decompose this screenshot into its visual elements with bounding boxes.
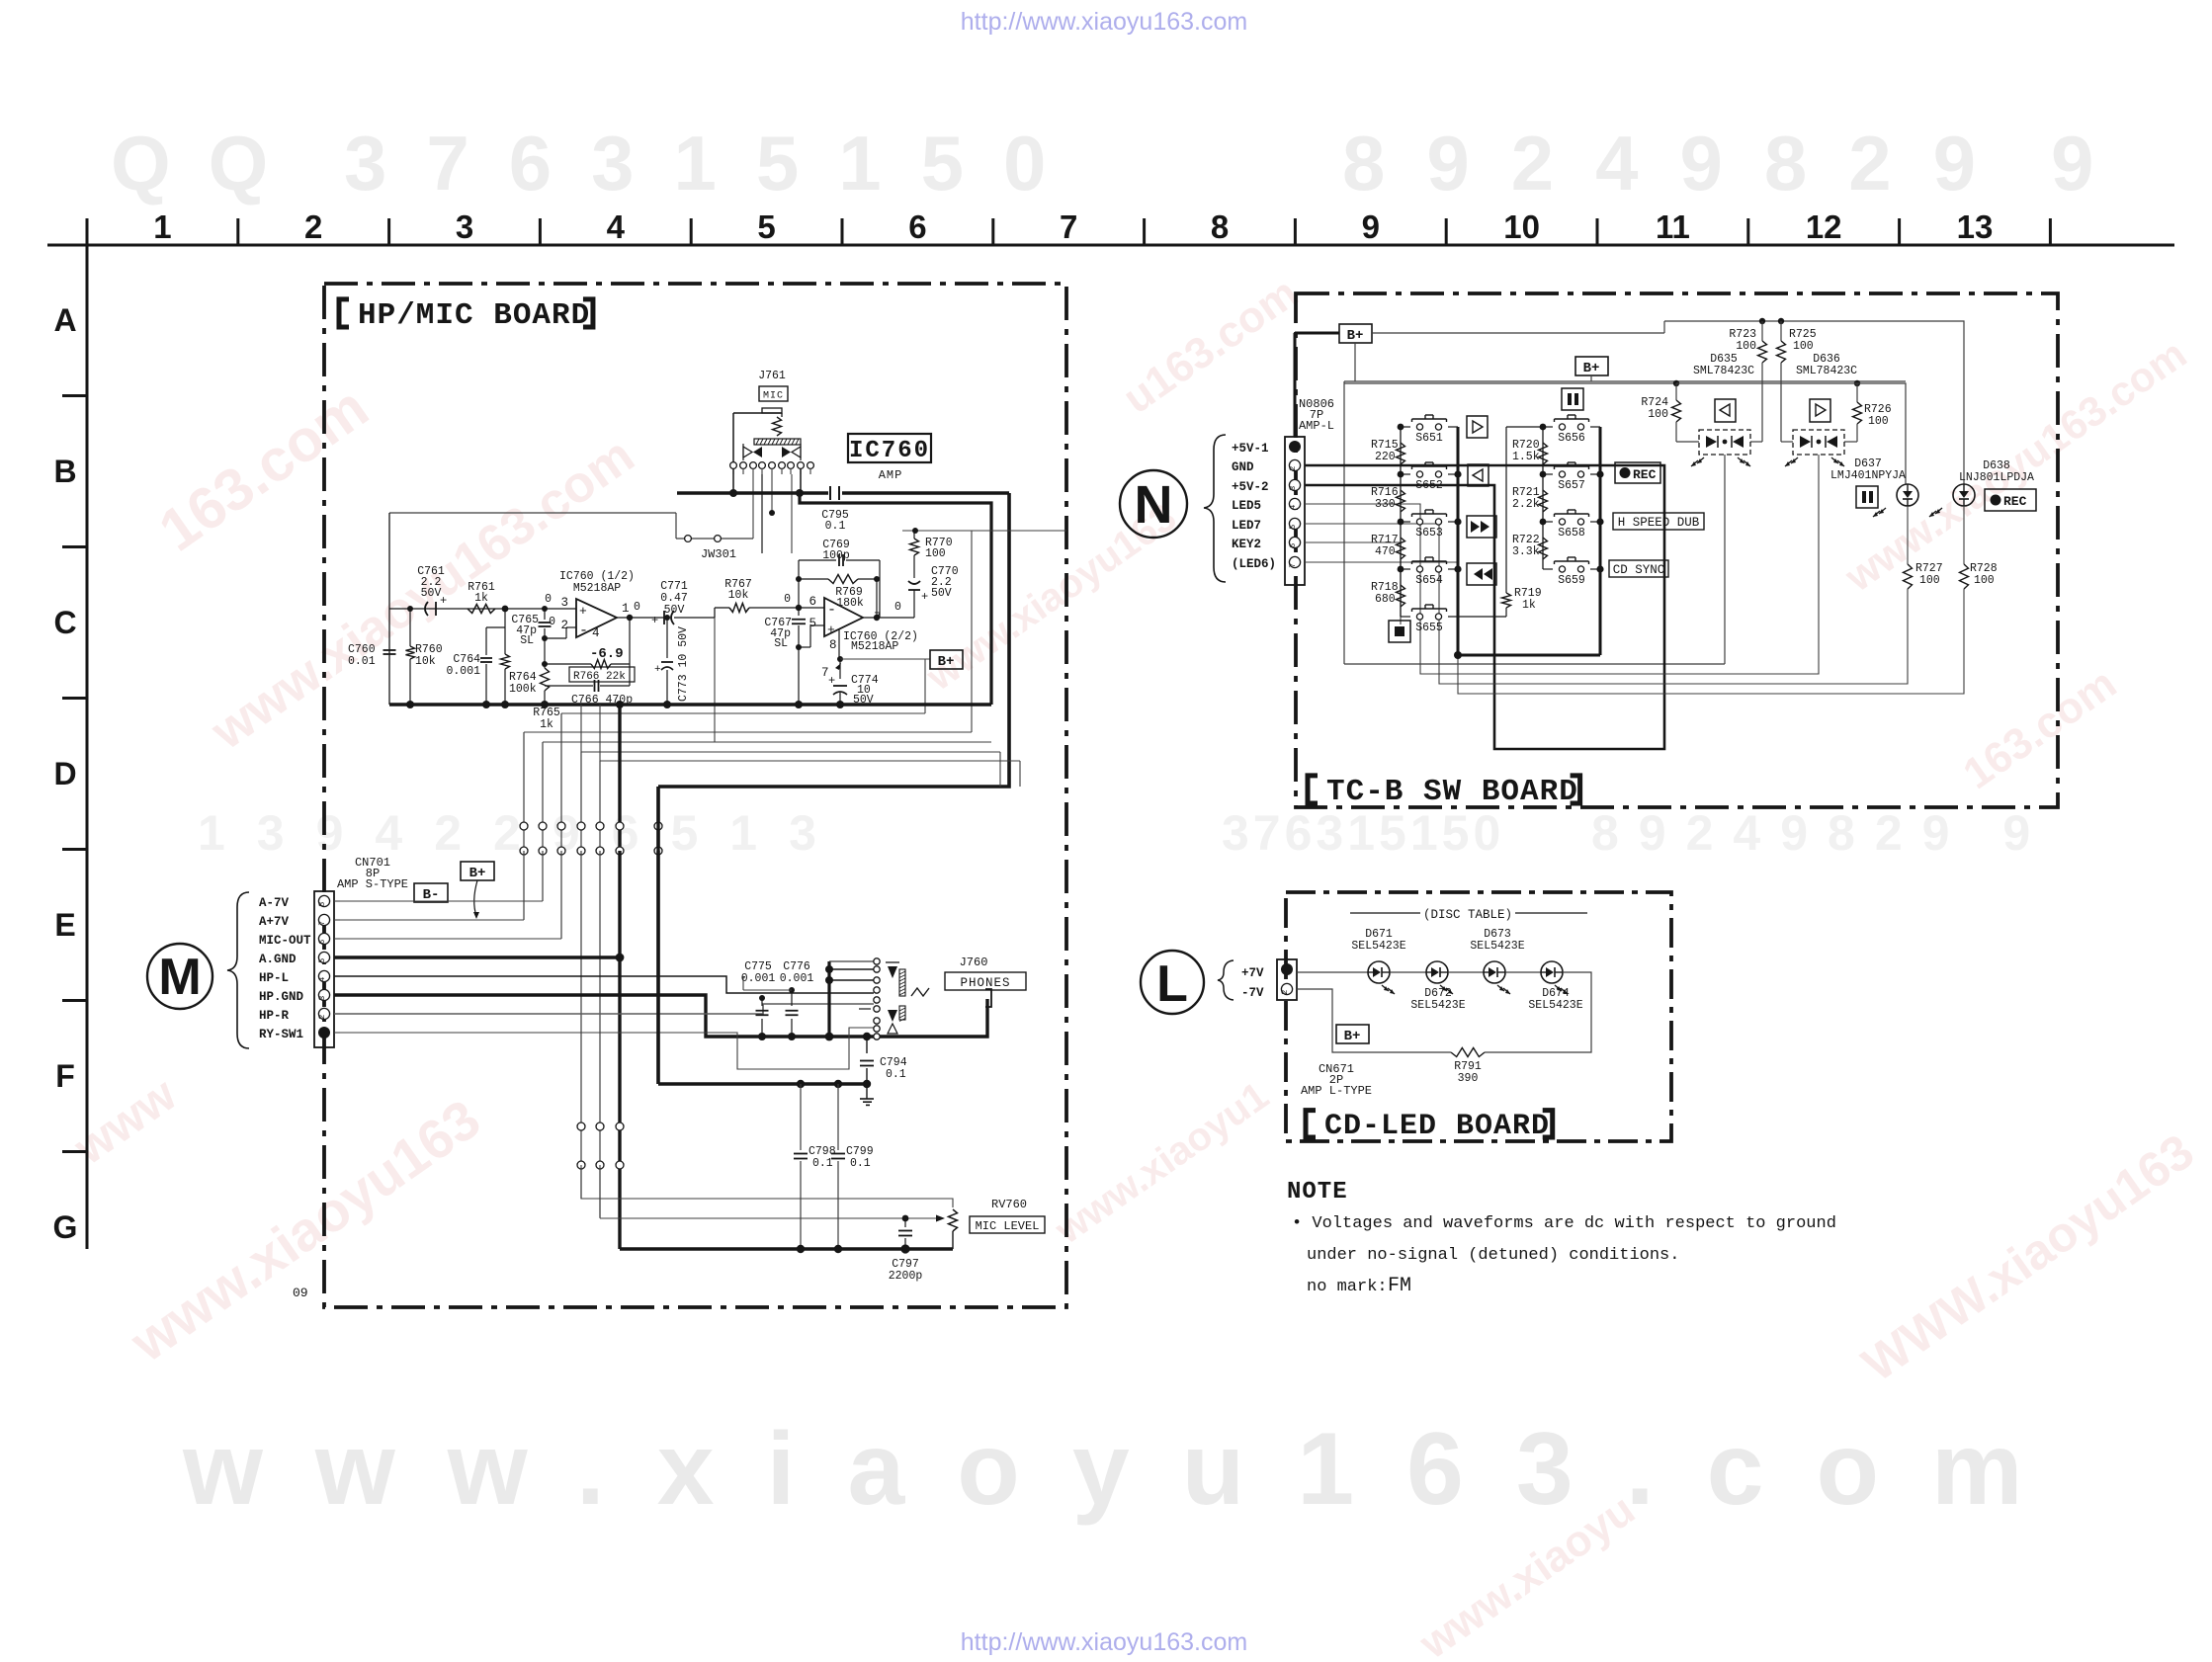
PHONES boxed label <box>945 972 1026 990</box>
matrix right thick rail (right group) <box>1599 427 1602 655</box>
svg-text:under no-signal (detuned) cond: under no-signal (detuned) conditions. <box>1307 1246 1679 1265</box>
LED D674 <box>1505 971 1541 973</box>
svg-text:5: 5 <box>1288 525 1298 530</box>
switch S656 <box>1543 426 1553 428</box>
B+ boxed label (cd) <box>1336 1025 1369 1043</box>
resistor R717 <box>1397 538 1405 559</box>
potentiometer RV760 <box>949 1209 958 1231</box>
ff icon box <box>1467 516 1496 538</box>
rev icon box <box>1468 464 1489 486</box>
svg-text:-: - <box>579 623 588 639</box>
TC-B SW board dash-dot border <box>1296 293 2058 807</box>
svg-text:http://www.xiaoyu163.com: http://www.xiaoyu163.com <box>961 1628 1247 1656</box>
rew icon box <box>1467 563 1496 585</box>
resistor R760 <box>409 609 411 646</box>
minus input fold <box>542 635 548 641</box>
svg-text:HP-L: HP-L <box>259 971 289 985</box>
svg-text:390: 390 <box>1458 1072 1479 1085</box>
jack J760 contact circles <box>874 958 880 964</box>
mic jack contacts diodes <box>743 447 752 457</box>
svg-text:-7V: -7V <box>1241 986 1264 1000</box>
switch S654 <box>1401 568 1410 570</box>
svg-text:A-7V: A-7V <box>259 896 290 910</box>
capacitor C760 <box>383 649 396 651</box>
stop icon box <box>1389 621 1410 642</box>
svg-text:3: 3 <box>456 208 473 245</box>
TC-B SW board title <box>1308 776 1318 803</box>
jack J760 plug tip <box>985 989 991 1007</box>
wire B+ inner bus <box>800 493 991 705</box>
svg-text:89249829 9: 89249829 9 <box>1591 805 2050 861</box>
svg-text:LED7: LED7 <box>1232 519 1261 533</box>
svg-text:G: G <box>53 1209 78 1245</box>
second rail <box>1344 382 1676 384</box>
jack J760 spring contact <box>911 988 929 996</box>
svg-text:SEL5423E: SEL5423E <box>1351 940 1405 953</box>
wire to RV760 top <box>581 1165 953 1207</box>
matrix left rail <box>1400 427 1402 617</box>
svg-text:B+: B+ <box>938 654 955 670</box>
pause icon box 2 <box>1856 486 1878 508</box>
connector N0806 <box>1285 437 1305 585</box>
svg-text:A: A <box>53 302 76 338</box>
resistor R727 <box>1907 506 1909 564</box>
resistor R723 <box>1761 321 1763 341</box>
pause icon box top <box>1562 388 1583 410</box>
LED D638 <box>1953 484 1975 506</box>
svg-text:H SPEED DUB: H SPEED DUB <box>1618 516 1700 530</box>
svg-text:S657: S657 <box>1558 479 1585 492</box>
svg-text:0.1: 0.1 <box>850 1157 871 1170</box>
resistor R765 chain to bus <box>541 668 550 691</box>
HP/MIC board title <box>339 299 349 327</box>
svg-text:11: 11 <box>1656 208 1690 245</box>
connector CN701 <box>314 891 334 1047</box>
mic jack pin stubs <box>732 468 734 493</box>
svg-text:S658: S658 <box>1558 527 1585 540</box>
svg-text:SML78423C: SML78423C <box>1796 365 1857 377</box>
capacitor C797 <box>904 1218 906 1227</box>
second row of connector circles <box>577 1122 585 1130</box>
pin7 LED6 wire <box>1305 562 1964 694</box>
svg-text:2: 2 <box>1288 466 1298 471</box>
matrix left rail (right group) <box>1542 427 1544 569</box>
thick rail bottom join <box>1458 654 1600 657</box>
switch S658 <box>1543 521 1553 523</box>
svg-text:• Voltages and waveforms are d: • Voltages and waveforms are dc with res… <box>1292 1214 1836 1233</box>
svg-text:4: 4 <box>592 626 600 640</box>
svg-text:470: 470 <box>1375 545 1396 558</box>
svg-text:1.5k: 1.5k <box>1512 451 1540 463</box>
main ground bus <box>389 703 991 706</box>
wire column x=530 <box>523 732 525 823</box>
svg-text:+: + <box>827 623 835 637</box>
svg-text:S654: S654 <box>1415 574 1443 587</box>
svg-text:www.xiaoyu163.com: www.xiaoyu163.com <box>182 1412 2075 1527</box>
LED D671 <box>1368 961 1390 983</box>
svg-text:(LED6): (LED6) <box>1232 557 1276 571</box>
svg-text:C: C <box>53 605 76 640</box>
wire to RV760 wiper <box>599 1165 601 1218</box>
wire column x=607 <box>599 761 601 823</box>
circled L <box>1141 951 1204 1014</box>
module stubs <box>1750 441 1762 443</box>
resistor R718 <box>1397 585 1405 607</box>
svg-text:B+: B+ <box>1583 361 1600 376</box>
resistor R722 <box>1539 538 1548 559</box>
svg-text:2200p: 2200p <box>889 1270 923 1283</box>
wire column x=588 <box>580 752 582 823</box>
capacitor C799 <box>837 1084 839 1150</box>
wire column x=568 <box>560 713 562 823</box>
svg-text:330: 330 <box>1375 498 1396 511</box>
wire column x=549 <box>542 742 544 823</box>
CN701 pin wires <box>334 900 543 902</box>
svg-text:50V: 50V <box>931 587 952 600</box>
capacitor C794 <box>866 1037 868 1053</box>
capacitor C770 <box>908 581 920 584</box>
svg-text:MIC: MIC <box>763 391 784 402</box>
svg-text:10k: 10k <box>728 589 749 602</box>
jumper JW301 <box>676 538 753 540</box>
circled N <box>1120 470 1187 538</box>
H SPEED DUB boxed label <box>1613 513 1704 530</box>
svg-text:J761: J761 <box>758 370 786 382</box>
DISC TABLE label <box>1350 912 1420 914</box>
svg-text:M5218AP: M5218AP <box>851 640 898 653</box>
svg-text:7: 7 <box>317 921 327 926</box>
LED D637 <box>1897 484 1918 506</box>
svg-text:AMP L-TYPE: AMP L-TYPE <box>1301 1084 1372 1098</box>
resistor R725 <box>1780 321 1782 341</box>
svg-text:GND: GND <box>1232 460 1254 474</box>
capacitor C795 <box>829 486 831 500</box>
svg-text:REC: REC <box>1633 467 1657 482</box>
svg-text:MIC-OUT: MIC-OUT <box>259 934 311 948</box>
svg-text:AMP S-TYPE: AMP S-TYPE <box>337 877 408 891</box>
MIC boxed label <box>759 386 788 401</box>
svg-text:376315150: 376315150 <box>344 120 1085 207</box>
svg-text:C773 10 50V: C773 10 50V <box>677 626 690 702</box>
svg-text:+5V-1: +5V-1 <box>1232 442 1269 456</box>
svg-text:SEL5423E: SEL5423E <box>1410 999 1465 1012</box>
op-amp IC760 (2/2) <box>824 598 863 636</box>
svg-text:-: - <box>827 602 836 619</box>
svg-text:NOTE: NOTE <box>1287 1179 1348 1205</box>
svg-text:QQ: QQ <box>111 120 305 207</box>
node under R761 <box>502 606 509 613</box>
svg-text:0.001: 0.001 <box>446 665 480 678</box>
svg-text:F: F <box>55 1058 75 1094</box>
svg-text:CD SYNC: CD SYNC <box>1613 563 1665 577</box>
mic jack pin circles <box>730 462 737 469</box>
svg-text:100: 100 <box>925 547 946 560</box>
op-amp2 output <box>863 617 914 619</box>
capacitor C766 <box>545 685 593 687</box>
svg-text:9: 9 <box>1362 208 1380 245</box>
svg-text:+: + <box>651 614 658 627</box>
svg-text:A+7V: A+7V <box>259 915 290 929</box>
IC760 boxed label <box>848 434 931 462</box>
B+ box1 stub <box>1354 343 1356 381</box>
play arrow icon box <box>1810 399 1830 422</box>
return wire with R791 <box>1485 972 1591 1052</box>
svg-text:3.3k: 3.3k <box>1512 545 1540 558</box>
svg-text:4: 4 <box>607 208 626 245</box>
svg-text:E: E <box>54 907 75 943</box>
svg-text:JW301: JW301 <box>701 547 736 561</box>
ground symbol <box>866 1084 868 1099</box>
svg-text:L: L <box>1156 956 1188 1013</box>
grid row ticks <box>62 394 87 397</box>
svg-text:0: 0 <box>549 616 555 628</box>
svg-text:10: 10 <box>1503 208 1540 245</box>
brace left of N0806 <box>1204 435 1226 582</box>
resistor R716 <box>1397 490 1405 512</box>
matrix right thick rail (left group) <box>1457 427 1460 655</box>
svg-text:J760: J760 <box>960 956 988 969</box>
svg-text:REC: REC <box>2003 494 2027 509</box>
svg-text:HP/MIC BOARD: HP/MIC BOARD <box>358 298 590 333</box>
resistor R764 <box>501 654 510 669</box>
svg-text:100: 100 <box>1648 408 1668 421</box>
svg-text:0.1: 0.1 <box>886 1068 906 1081</box>
svg-text:0.01: 0.01 <box>348 655 376 668</box>
grid ruler top line <box>47 244 2174 247</box>
HP/MIC board dash-dot border <box>324 284 1066 1307</box>
wire column x=666 <box>656 787 659 823</box>
svg-text:S655: S655 <box>1415 622 1443 634</box>
B+ boxed label (conn) <box>461 862 494 880</box>
svg-text:M5218AP: M5218AP <box>573 582 621 595</box>
play icon box <box>1467 416 1488 438</box>
pin6 KEY2 wire <box>1305 542 1401 624</box>
svg-text:+5V-2: +5V-2 <box>1232 480 1269 494</box>
svg-text:3: 3 <box>1288 486 1298 491</box>
circled M <box>147 944 213 1009</box>
svg-text:13: 13 <box>1957 208 1994 245</box>
resistor R761 <box>468 605 495 614</box>
svg-text:4: 4 <box>317 977 327 982</box>
switch S653 <box>1401 521 1410 523</box>
svg-text:6: 6 <box>908 208 926 245</box>
svg-text:AMP: AMP <box>879 468 903 482</box>
svg-text:0: 0 <box>784 593 791 606</box>
feedback loop C769 <box>798 560 800 579</box>
LED1 cathode long wire <box>1724 455 1726 664</box>
CD SYNC boxed label <box>1609 560 1668 577</box>
REC boxed label 2 <box>1985 489 2036 511</box>
svg-text:S656: S656 <box>1558 432 1585 445</box>
thick node column to jack <box>827 961 830 1037</box>
grid left line <box>86 245 89 1249</box>
pin4 LED5 wire <box>1305 455 1819 674</box>
svg-text:IC760: IC760 <box>849 438 930 464</box>
svg-text:CD-LED BOARD: CD-LED BOARD <box>1324 1110 1550 1143</box>
resistor R728 <box>1963 506 1965 564</box>
staircase wires to lower section <box>580 705 582 752</box>
svg-text:+: + <box>440 594 447 608</box>
mic jack hatched bar <box>754 439 801 445</box>
capacitor C765 <box>542 606 548 612</box>
svg-text:2: 2 <box>1280 990 1290 995</box>
capacitor C798 <box>800 1084 802 1150</box>
svg-text:50V: 50V <box>421 587 442 600</box>
plus input fold op2 <box>799 646 810 648</box>
svg-text:0: 0 <box>634 601 640 614</box>
svg-text:6: 6 <box>1288 543 1298 548</box>
LED chain wire <box>1297 971 1368 973</box>
svg-text:3: 3 <box>560 596 568 610</box>
svg-text:09: 09 <box>293 1286 308 1300</box>
svg-text:HP-R: HP-R <box>259 1009 290 1023</box>
svg-text:1k: 1k <box>474 592 488 605</box>
svg-text:7: 7 <box>1288 563 1298 568</box>
svg-text:2: 2 <box>317 1015 327 1020</box>
svg-text:B+: B+ <box>1347 328 1364 344</box>
pin8 wire to B+ <box>838 629 840 659</box>
resistor R715 <box>1397 443 1405 464</box>
N0806 pin1 wire to B+ <box>1294 333 1297 437</box>
resistor R726 <box>1856 383 1858 402</box>
REC boxed label <box>1615 462 1660 483</box>
middle rail R719 <box>1505 427 1507 593</box>
svg-text:100: 100 <box>1868 415 1889 428</box>
thick bottom bus <box>620 1247 953 1250</box>
GND thick loop <box>1305 465 1664 749</box>
HP bus to jack <box>874 999 987 1037</box>
svg-text:S651: S651 <box>1415 432 1443 445</box>
svg-text:100: 100 <box>1974 574 1995 587</box>
svg-text:0.1: 0.1 <box>812 1157 833 1170</box>
feedback loop R766 <box>542 661 548 667</box>
svg-text:RV760: RV760 <box>991 1198 1027 1211</box>
feedback loop R769 <box>798 579 800 608</box>
svg-text:S659: S659 <box>1558 574 1585 587</box>
svg-text:8: 8 <box>829 638 837 652</box>
wire B+ top bus <box>677 491 828 495</box>
resistor R724 <box>1675 383 1677 400</box>
jack J760 hatched bars <box>899 969 905 996</box>
svg-text:5: 5 <box>808 617 816 630</box>
svg-text:6: 6 <box>808 595 816 609</box>
svg-text:-6.9: -6.9 <box>590 646 624 662</box>
svg-text:LED5: LED5 <box>1232 499 1261 513</box>
svg-text:(DISC TABLE): (DISC TABLE) <box>1423 908 1512 922</box>
svg-text:S653: S653 <box>1415 527 1443 540</box>
svg-text:7: 7 <box>1060 208 1077 245</box>
LED module D635 <box>1699 430 1750 455</box>
switch S659 <box>1543 568 1553 570</box>
svg-text:1: 1 <box>153 208 171 245</box>
svg-text:100: 100 <box>1919 574 1940 587</box>
switch S655 <box>1401 616 1410 618</box>
capacitor C773 <box>666 618 668 658</box>
connector CN671 <box>1277 959 1297 1000</box>
svg-text:100: 100 <box>1793 340 1814 353</box>
B+ boxed label 1 <box>1339 324 1372 343</box>
svg-text:FM: FM <box>1388 1275 1411 1297</box>
svg-text:3: 3 <box>317 996 327 1001</box>
svg-text:SML78423C: SML78423C <box>1693 365 1754 377</box>
svg-text:SL: SL <box>774 637 788 650</box>
svg-text:1: 1 <box>622 602 630 616</box>
svg-text:5: 5 <box>757 208 775 245</box>
B- boxed label <box>414 883 448 902</box>
LED D673 <box>1448 971 1484 973</box>
thin frame rect <box>1344 380 1906 382</box>
svg-text:B: B <box>53 454 76 489</box>
svg-text:HP.GND: HP.GND <box>259 990 304 1004</box>
resistor R720 <box>1539 443 1548 464</box>
grid ruler ticks <box>86 218 89 245</box>
resistor R770 <box>913 531 915 539</box>
svg-text:PHONES: PHONES <box>960 976 1010 990</box>
svg-text:0.001: 0.001 <box>780 972 814 985</box>
svg-text:2: 2 <box>560 619 568 632</box>
svg-text:1k: 1k <box>540 718 553 731</box>
svg-text:12: 12 <box>1806 208 1842 245</box>
svg-text:8: 8 <box>1211 208 1229 245</box>
svg-text:N: N <box>1135 475 1173 535</box>
svg-text:100k: 100k <box>509 683 537 696</box>
wire B+ outer loop <box>658 493 1009 787</box>
svg-text:SEL5423E: SEL5423E <box>1528 999 1582 1012</box>
svg-text:0.001: 0.001 <box>741 972 776 985</box>
svg-text:TC-B SW BOARD: TC-B SW BOARD <box>1326 775 1578 809</box>
svg-text:100: 100 <box>1736 340 1756 353</box>
B+ boxed label 2 <box>1575 357 1608 375</box>
svg-text:+: + <box>921 590 928 604</box>
resistor R767 <box>715 607 729 609</box>
svg-text:+: + <box>654 664 661 676</box>
svg-text:AMP-L: AMP-L <box>1299 419 1334 433</box>
wire B+ top thin rail <box>902 530 1066 532</box>
LED D672 <box>1390 971 1426 973</box>
CD-LED board title <box>1306 1111 1316 1137</box>
switch S652 <box>1401 473 1410 475</box>
svg-text:http://www.xiaoyu163.com: http://www.xiaoyu163.com <box>961 8 1247 36</box>
brace left of CN701 <box>227 892 249 1048</box>
capacitor C764 <box>486 626 505 628</box>
svg-text:+7V: +7V <box>1241 966 1264 980</box>
CD-LED board dash-dot border <box>1286 892 1671 1141</box>
svg-text:MIC LEVEL: MIC LEVEL <box>976 1219 1040 1233</box>
wire input top rail <box>389 512 676 514</box>
R767 input branch <box>714 608 716 742</box>
wire column x=627 <box>618 705 621 823</box>
svg-text:89249829: 89249829 <box>1342 120 2017 207</box>
svg-text:no mark:: no mark: <box>1307 1278 1388 1296</box>
svg-text:0: 0 <box>894 601 901 614</box>
svg-text:KEY2: KEY2 <box>1232 538 1261 551</box>
svg-text:4: 4 <box>1288 505 1298 510</box>
MIC LEVEL boxed label <box>970 1216 1045 1233</box>
switch S651 <box>1401 426 1410 428</box>
thick lower bus <box>656 787 659 1084</box>
svg-text:5: 5 <box>317 958 327 963</box>
svg-text:220: 220 <box>1375 451 1396 463</box>
LED module D636 <box>1793 430 1844 455</box>
switch S657 <box>1543 473 1553 475</box>
svg-text:10k: 10k <box>415 655 436 668</box>
svg-text:D: D <box>53 756 76 791</box>
svg-text:S652: S652 <box>1415 479 1443 492</box>
wire input node rail <box>388 513 390 705</box>
B+1 rail link <box>1372 332 1664 334</box>
svg-text:0: 0 <box>545 593 552 606</box>
pin5 LED7 wire <box>1305 524 1908 684</box>
